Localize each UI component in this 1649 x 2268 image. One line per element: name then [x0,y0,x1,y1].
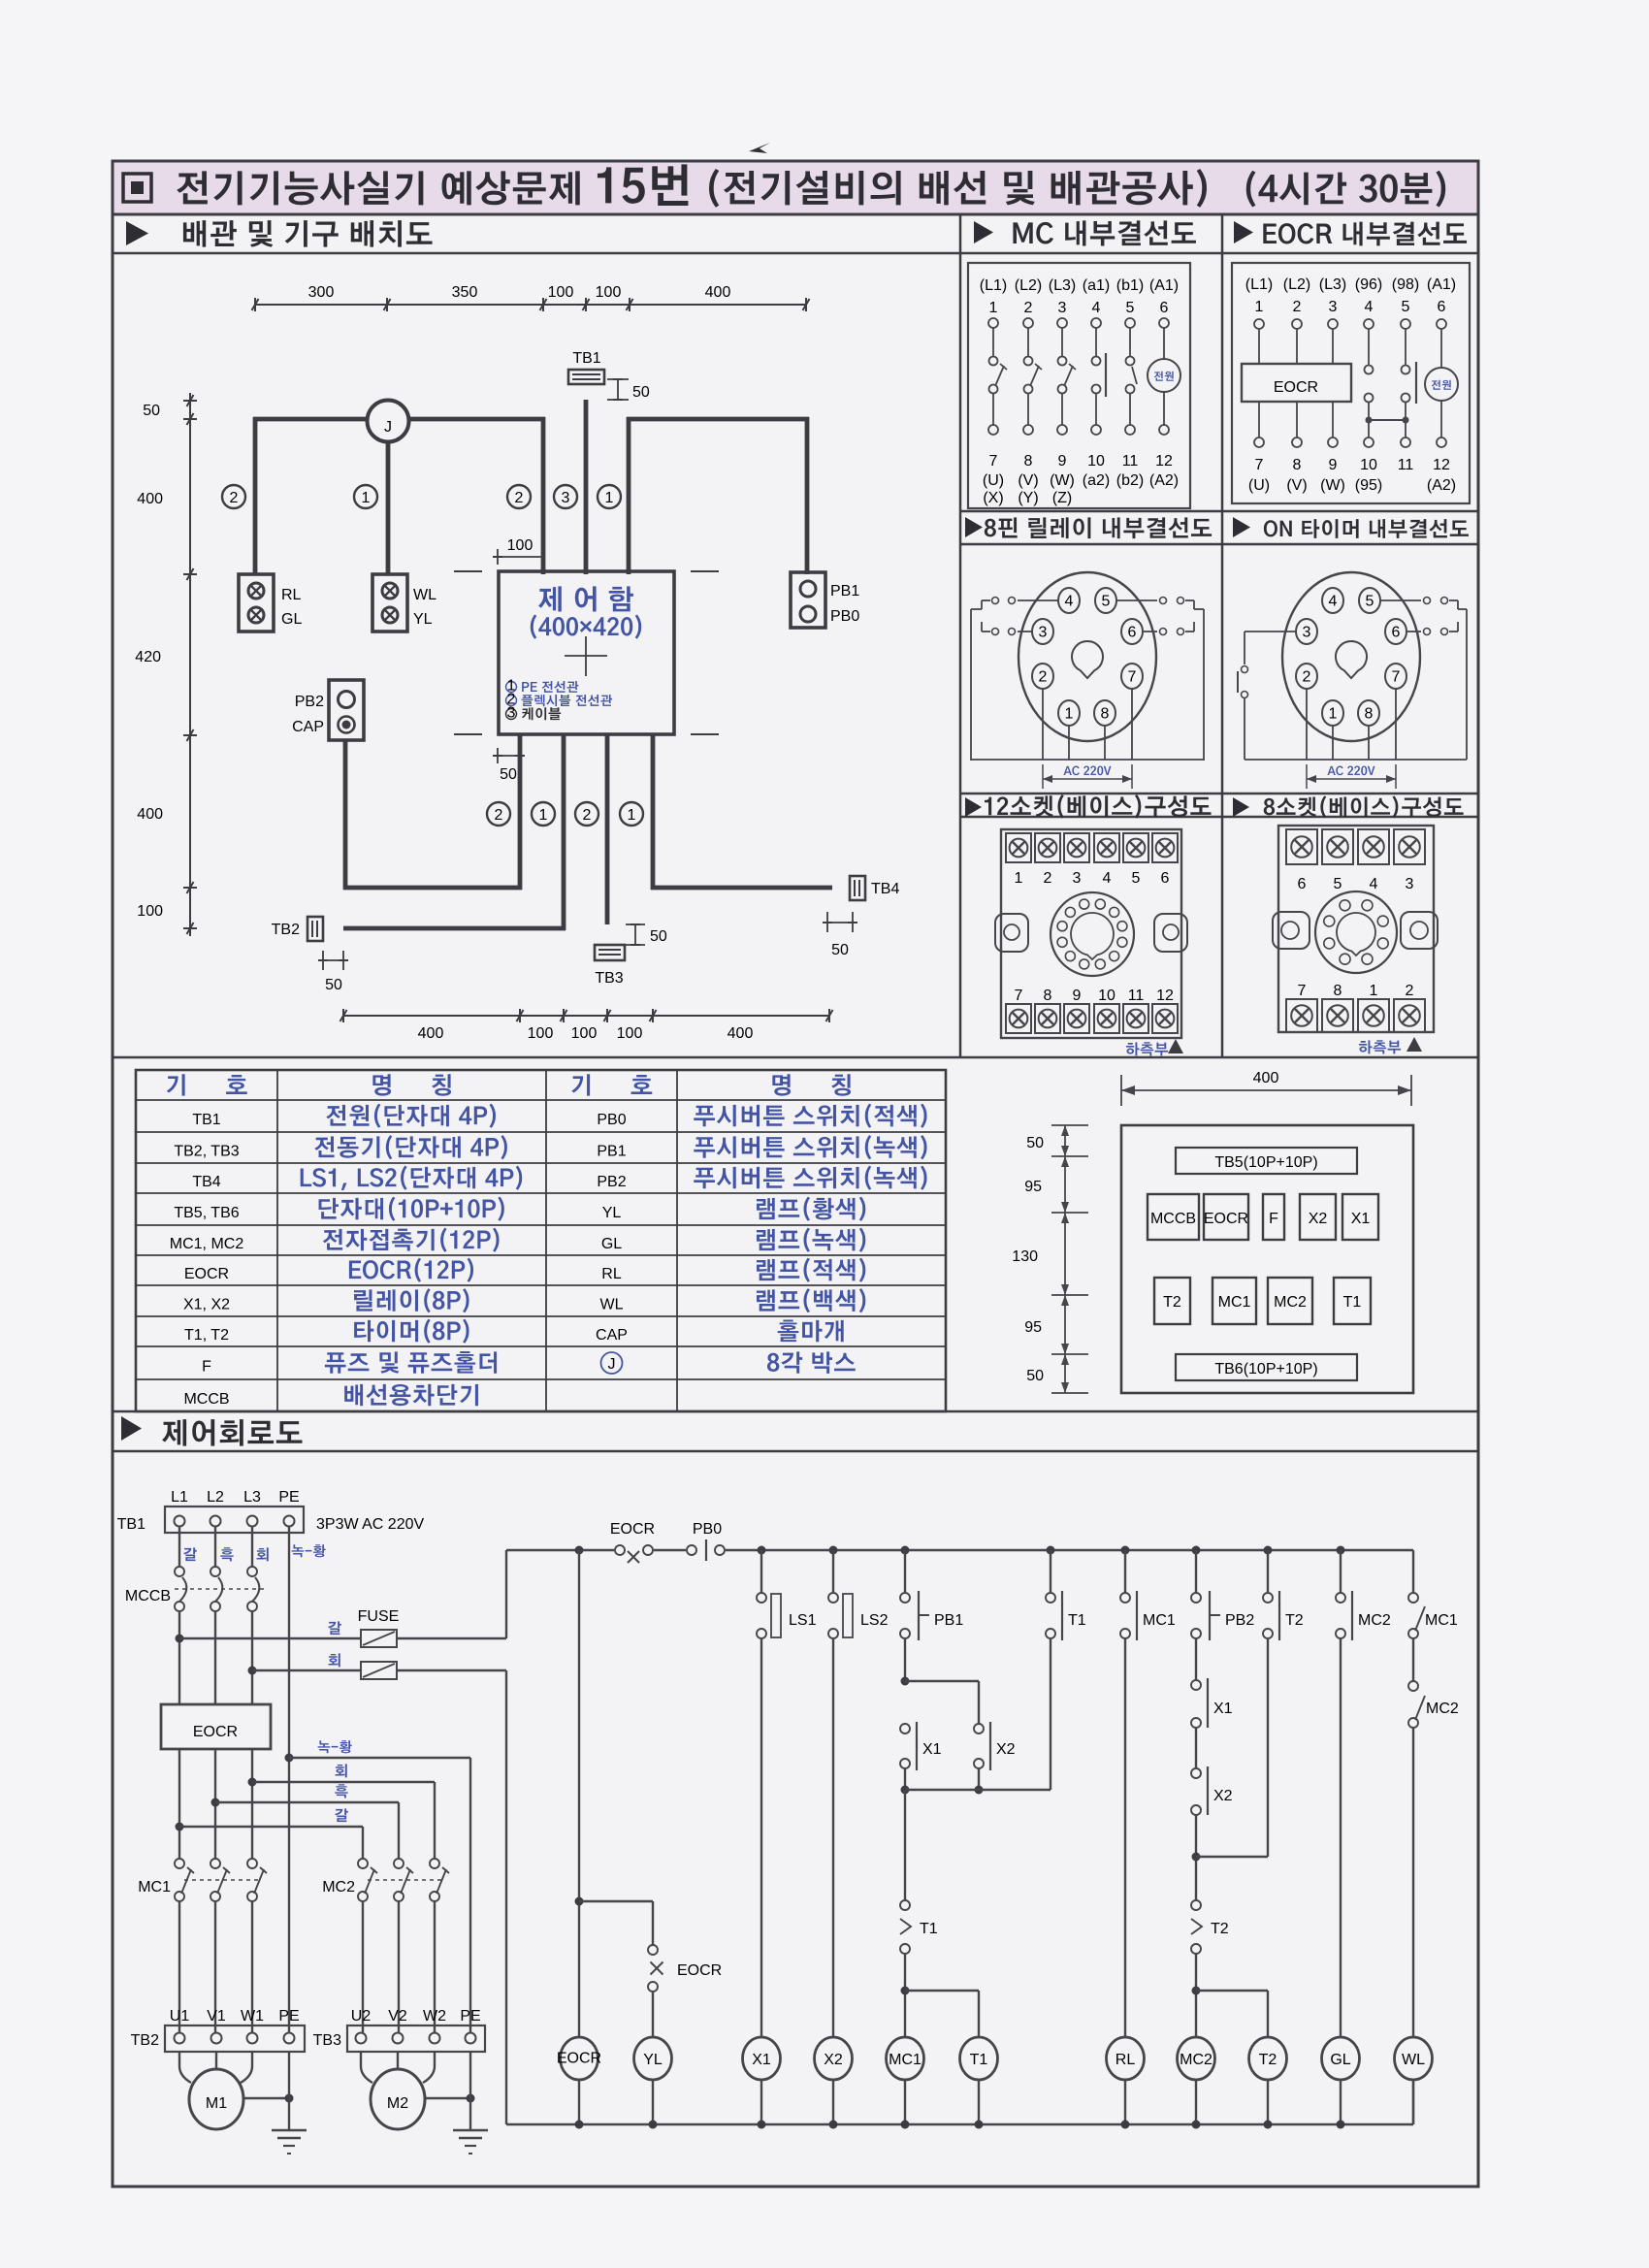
svg-text:95: 95 [1024,1179,1042,1195]
lamp WL [382,583,398,599]
MC pin 7 bottom circle [988,425,998,435]
svg-text:MC1, MC2: MC1, MC2 [170,1236,244,1252]
relay left contact row B [1018,631,1032,632]
svg-text:T1, T2: T1, T2 [184,1327,229,1344]
MCCB pole [210,1567,220,1576]
svg-text:6: 6 [1392,625,1401,641]
fuse wire gray [252,1669,361,1671]
wire L3 down [251,1611,253,1704]
svg-text:PB2: PB2 [1225,1612,1254,1629]
bus junction X2 [829,2121,838,2129]
MC pin 11 bottom circle [1125,425,1135,435]
8-socket hole 8 [1340,900,1350,911]
coil MC1 [887,2037,924,2080]
wires MC2 to TB3 [362,1901,364,2033]
octal pin 5 [1095,588,1116,613]
svg-text:TB1: TB1 [192,1112,220,1128]
svg-text:350: 350 [452,284,478,301]
svg-text:(U): (U) [983,472,1004,489]
svg-text:EOCR: EOCR [193,1724,238,1740]
svg-text:WL: WL [413,587,436,603]
svg-text:CAP: CAP [596,1327,628,1344]
svg-text:3: 3 [1039,625,1048,641]
svg-text:4: 4 [1092,300,1101,316]
svg-text:(A2): (A2) [1149,472,1179,489]
12-socket screw top 2 [1035,833,1060,862]
rung T1 contact [1047,1546,1055,1555]
wire black to MC2 [215,1801,399,1803]
12-socket center ring [1051,892,1134,976]
lamp YL [382,607,398,623]
svg-text:X1: X1 [752,2052,771,2068]
svg-text:X1, X2: X1, X2 [183,1297,230,1313]
svg-text:5: 5 [1366,594,1374,610]
svg-text:5: 5 [1132,870,1141,887]
octal socket circle [1282,572,1420,741]
12-socket screw top 1 [1006,833,1031,862]
wire: CAP to box bottom [343,886,522,891]
8-socket screw top 3 [1394,829,1425,864]
svg-text:TB5, TB6: TB5, TB6 [174,1205,239,1221]
svg-text:50: 50 [325,977,342,993]
header: EOCR 내부결선도 [1234,221,1253,243]
12-socket hole 4 [1117,937,1127,947]
svg-text:10: 10 [1087,453,1105,470]
header: 배관 및 기구 배치도 [126,221,148,245]
MC pin 4 top circle [1091,318,1101,328]
octal pin 2 [1296,664,1317,689]
MC aux contact pin 5 [1129,328,1131,356]
dim 100 above box [497,549,499,565]
rung PB2 [1192,1546,1201,1555]
MC pin 10 bottom circle [1091,425,1101,435]
junction L2 tap [211,1798,220,1807]
svg-text:5: 5 [1334,876,1342,892]
EOCR pin 4 top circle [1364,319,1374,329]
svg-text:T2: T2 [1285,1612,1304,1629]
component MCCB [1148,1194,1199,1240]
coil YL [634,2037,672,2080]
svg-text:50: 50 [143,403,160,419]
svg-text:(L3): (L3) [1049,277,1076,294]
svg-text:MCCB: MCCB [1150,1211,1196,1227]
svg-text:PE: PE [278,2008,299,2025]
circled 1 [354,485,377,508]
svg-text:11: 11 [1398,457,1414,473]
corner marks [454,570,482,572]
octal pin 3 [1296,619,1317,644]
svg-text:TB4: TB4 [871,881,899,897]
12-socket screw top 3 [1064,833,1089,862]
EOCR pin 9 bottom circle [1328,437,1338,447]
svg-text:RL: RL [281,587,302,603]
dim 50 at TB1 [607,378,629,380]
svg-text:9: 9 [1058,453,1067,470]
12-socket screw bottom 10 [1094,1004,1119,1033]
dim 50 TB3 [626,923,645,925]
svg-text:3: 3 [1073,870,1082,887]
svg-text:FUSE: FUSE [358,1608,400,1625]
svg-text:4: 4 [1329,594,1338,610]
ctrlbox left dimension [1064,1125,1066,1393]
svg-text:6: 6 [1160,300,1169,316]
svg-text:TB2, TB3: TB2, TB3 [174,1144,239,1160]
wire: J down to WL lamp [386,441,391,574]
TB1 terminal L2 [210,1516,221,1527]
title square icon [123,174,151,202]
svg-text:PB0: PB0 [830,608,859,625]
fuse wire to bottom bus [397,1669,506,1671]
svg-text:TB1: TB1 [572,350,600,367]
svg-text:(96): (96) [1355,276,1382,293]
svg-text:4: 4 [1065,594,1074,610]
svg-text:U2: U2 [351,2008,372,2025]
svg-text:2: 2 [1293,299,1302,315]
lamp box RL GL [239,574,274,632]
svg-text:100: 100 [617,1025,643,1042]
octal pin 7 [1385,664,1406,689]
wire: TB4 bus [651,734,656,890]
svg-text:1: 1 [1329,706,1338,723]
svg-text:(a1): (a1) [1083,277,1110,294]
svg-text:8: 8 [1334,983,1342,999]
svg-text:2: 2 [1303,669,1311,686]
octal pin 6 [1385,619,1406,644]
junction L1 tap [176,1823,184,1831]
component MC2 [1268,1278,1312,1324]
ground M2 [469,2052,471,2130]
8-socket hole 4 [1362,954,1373,964]
svg-text:EOCR: EOCR [557,2051,601,2067]
MC main contact pole 1 [992,328,994,356]
svg-text:(b2): (b2) [1116,472,1144,489]
svg-text:PE: PE [278,1489,299,1506]
svg-text:2: 2 [1406,983,1414,999]
svg-text:PE: PE [460,2008,480,2025]
svg-text:EOCR: EOCR [184,1266,229,1282]
svg-text:1: 1 [989,300,998,316]
motor M2 PE link [425,2097,470,2099]
motor M1 leads [179,2052,191,2083]
relay right rail [1203,609,1205,761]
contact X1 (PB2) [1191,1680,1201,1690]
svg-text:(98): (98) [1392,276,1419,293]
svg-text:T2: T2 [1211,1921,1229,1937]
timer right contact row A [1380,599,1421,601]
TB3 terminal V2 [393,2033,404,2044]
EOCR power circle 전원 [1440,329,1442,368]
svg-text:GL: GL [601,1236,622,1252]
svg-text:(W): (W) [1050,472,1075,489]
12-socket screw bottom 9 [1064,1004,1089,1033]
EOCR lead pin 3 [1332,329,1334,364]
MC aux blade pin5 [1132,367,1137,384]
8-socket hole 2 [1377,916,1388,926]
svg-text:50: 50 [1026,1368,1044,1384]
svg-text:YL: YL [602,1205,622,1221]
svg-text:PB0: PB0 [693,1521,722,1538]
octal pin 1 [1322,700,1343,726]
svg-text:X2: X2 [1309,1211,1328,1227]
TB1 terminal PE [284,1516,295,1527]
12-socket hole 8 [1065,952,1075,961]
8-socket inner hole [1337,913,1375,956]
header band line [113,252,1478,255]
12-socket screw top 4 [1094,833,1119,862]
header: MC 내부결선도 [974,221,993,243]
svg-text:130: 130 [1012,1248,1038,1265]
12-socket right tab [1154,914,1187,952]
EOCR contact pin 4 [1368,329,1370,365]
svg-text:1: 1 [1255,299,1264,315]
legend table grid [136,1070,946,1411]
svg-text:PB2: PB2 [295,694,324,710]
scan artifact mark [749,143,770,153]
component X1 [1342,1194,1378,1240]
svg-text:EOCR: EOCR [677,1962,722,1979]
svg-text:TB2: TB2 [131,2032,159,2049]
relay pin drops [1042,689,1044,760]
fuse wire to bus [397,1637,506,1639]
MC pin 1 top circle [988,318,998,328]
MC pin 8 bottom circle [1023,425,1033,435]
EOCR contact pin 5 [1405,329,1406,365]
제어회로도 band [113,1410,1478,1413]
svg-text:(Z): (Z) [1052,490,1072,506]
12-socket hole 6 [1095,959,1105,969]
motor M1 PE link [243,2097,289,2099]
motor M1 [189,2069,243,2129]
octal pin 2 [1032,664,1053,689]
svg-text:2: 2 [230,490,239,506]
svg-text:400: 400 [137,806,163,823]
svg-text:F: F [202,1359,211,1376]
12-socket hole 10 [1057,922,1067,931]
bus junction GL [1337,2121,1345,2129]
svg-text:(L1): (L1) [1245,276,1273,293]
svg-text:F: F [1269,1211,1278,1227]
coil X1 [743,2037,781,2080]
svg-text:PB0: PB0 [597,1112,626,1128]
motor M2 leads [361,2052,372,2083]
svg-text:GL: GL [281,611,302,628]
svg-text:(b1): (b1) [1116,277,1144,294]
wire: CAP drop [343,740,348,890]
svg-text:M1: M1 [206,2095,227,2112]
relay right contact row A [1116,599,1157,601]
svg-text:6: 6 [1438,299,1446,315]
svg-text:4: 4 [1365,299,1374,315]
PB0 NC pushbutton [686,1542,726,1558]
terminal block TB1 [165,1507,304,1533]
EOCR pin 5 top circle [1401,319,1410,329]
svg-text:(A2): (A2) [1427,477,1456,494]
svg-text:(A1): (A1) [1427,276,1456,293]
svg-text:PB1: PB1 [830,583,859,599]
MC1 pole [210,1859,220,1868]
svg-text:2: 2 [1024,300,1033,316]
12-socket hole 9 [1057,937,1067,947]
svg-text:4: 4 [1103,870,1112,887]
8-socket hole 6 [1324,938,1335,949]
svg-text:W1: W1 [241,2008,264,2025]
bus junction T1 [975,2121,984,2129]
12-socket screw bottom 11 [1123,1004,1148,1033]
MC1 link dashed [184,1879,260,1881]
lamp box WL YL [372,574,407,632]
EOCR lead pin 2 [1296,329,1298,364]
svg-text:YL: YL [413,611,433,628]
junction L1 fuse tap [176,1635,184,1643]
svg-text:TB4: TB4 [192,1174,220,1190]
wire gray to MC2 [252,1781,435,1783]
svg-text:11: 11 [1128,988,1145,1004]
timer left wire from pin3 [1245,631,1296,632]
svg-text:(L2): (L2) [1283,276,1310,293]
coil X2 [815,2037,853,2080]
component MC1 [1212,1278,1256,1324]
svg-text:MCCB: MCCB [183,1391,229,1408]
12-socket 하측부 label [1126,1042,1168,1055]
svg-text:4: 4 [1370,876,1378,892]
rung PB1 [901,1546,910,1555]
svg-text:2: 2 [1039,669,1048,686]
svg-text:MC1: MC1 [1218,1294,1251,1311]
control bottom bus [506,2123,1413,2125]
svg-text:MC2: MC2 [322,1879,355,1895]
wires EOCR to MC1 [178,1749,180,1859]
EOCR pin 3 top circle [1328,319,1338,329]
merge line [901,1786,910,1795]
8-socket screw top 4 [1358,829,1389,864]
12-socket inner hole [1071,913,1114,959]
panel divider verticals [959,214,962,1057]
svg-text:X1: X1 [1213,1701,1233,1717]
octal pin 6 [1121,619,1143,644]
timer AC 220V dimension [1306,764,1308,789]
label 제어함 [538,586,633,611]
wire color labels [183,1547,197,1561]
svg-text:50: 50 [1026,1135,1044,1151]
octal pin 3 [1032,619,1053,644]
timer right contact row B [1406,631,1421,632]
svg-text:50: 50 [632,384,650,401]
coil GL [1322,2037,1360,2080]
rung LS1 [758,1546,766,1555]
MC aux contact pin 4 [1095,328,1097,356]
svg-text:2: 2 [583,807,592,824]
svg-text:EOCR: EOCR [1274,379,1318,396]
MC pin 3 top circle [1057,318,1067,328]
svg-text:1: 1 [605,490,614,506]
timer bottom bus [1245,759,1467,761]
rung T2 contact [1264,1546,1273,1555]
header: 8핀 릴레이 내부결선도 [965,517,983,537]
branch to YL [579,1900,653,1902]
EOCR pin 6 top circle [1437,319,1446,329]
timer left contact [1242,666,1248,673]
svg-text:1: 1 [362,490,371,506]
pushbutton box PB1 PB0 [791,572,825,628]
terminal TB4 [850,876,865,900]
fuse wire brown [179,1637,361,1639]
8-socket screw bottom 1 [1358,999,1389,1032]
lamp RL [248,583,264,599]
svg-text:3: 3 [1058,300,1067,316]
top dimension line [255,304,806,306]
MC main contact pole 2 [1027,328,1029,356]
svg-text:X2: X2 [824,2052,843,2068]
8-socket right tab [1401,912,1438,949]
component T1 [1334,1278,1371,1324]
MC main contact pole 3 [1061,328,1063,356]
dim 50 below box [497,748,499,763]
svg-text:M2: M2 [387,2095,408,2112]
MCCB link dashed [175,1588,264,1590]
MC pin 9 bottom circle [1057,425,1067,435]
header: 8소켓(베이스)구성도 [1233,797,1249,817]
component EOCR [1204,1194,1248,1240]
svg-text:100: 100 [528,1025,554,1042]
svg-text:6: 6 [1298,876,1307,892]
circled 2 [222,485,245,508]
MC pin 12 bottom circle [1159,425,1169,435]
relay left rail [970,609,972,761]
12-socket left tab [995,914,1028,952]
TB2 terminal PE [284,2033,295,2044]
coil RL [1107,2037,1145,2080]
svg-text:TB5(10P+10P): TB5(10P+10P) [1214,1154,1317,1171]
pushbutton box PB2 CAP [329,680,364,740]
MC aux bar pin4 [1105,353,1107,397]
svg-text:11: 11 [1122,453,1139,470]
component X2 [1300,1194,1336,1240]
svg-text:(U): (U) [1248,477,1270,494]
octal keyhole [1336,641,1367,678]
svg-text:LS1: LS1 [789,1612,817,1629]
wire: PB branch [627,417,631,574]
svg-text:1: 1 [1065,706,1074,723]
12-socket hole 11 [1065,907,1075,917]
wire L1 down [178,1611,180,1704]
junction L3 tap [248,1778,257,1787]
svg-text:(V): (V) [1018,472,1038,489]
circled 2 [575,802,598,826]
svg-text:100: 100 [548,284,574,301]
12-socket screw top 5 [1123,833,1148,862]
svg-text:(95): (95) [1355,477,1382,494]
MC2 pole [430,1859,439,1868]
wire: TB3 drop [605,734,610,924]
svg-text:1: 1 [628,807,636,824]
header: ON 타이머 내부결선도 [1233,517,1250,537]
svg-text:6: 6 [1161,870,1170,887]
wire: TB2 bus [562,734,566,930]
bus junction X1 [758,2121,766,2129]
12-socket hole 12 [1080,899,1089,909]
MC2 pole [358,1859,368,1868]
8-socket screw bottom 7 [1286,999,1317,1032]
svg-text:(L1): (L1) [980,277,1007,294]
svg-text:L3: L3 [243,1489,261,1506]
title text [177,171,579,205]
svg-text:T1: T1 [1068,1612,1086,1629]
svg-text:400: 400 [1253,1070,1279,1086]
relay left contact row A [1018,599,1058,601]
EOCR 95 junction link [1366,417,1373,424]
EOCR panel inner box [1232,263,1470,503]
12-socket screw bottom 12 [1152,1004,1178,1033]
